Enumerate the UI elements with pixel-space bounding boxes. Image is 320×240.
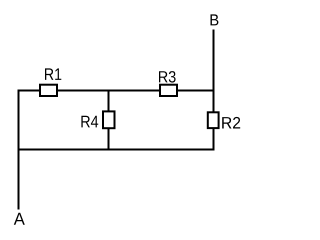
node A label	[14, 213, 25, 225]
label R1	[45, 68, 61, 80]
resistor R3 (box body)	[160, 85, 177, 96]
wire: bottom horizontal bus	[18, 149, 215, 151]
node B label	[211, 14, 219, 25]
wire: left vertical segment from top bus down to terminal A	[18, 90, 20, 210]
label R3	[159, 71, 176, 83]
wire: top horizontal bus from left branch through R1 and R3 to node B branch	[18, 90, 215, 92]
label R4	[81, 116, 98, 128]
wire: R4 vertical branch from top bus to bottom bus	[108, 91, 110, 151]
resistor R2 (box body)	[208, 112, 219, 128]
resistor R4 (box body)	[103, 111, 115, 128]
wire: vertical segment from node B through R2 position down to bottom bus corner	[213, 30, 215, 151]
resistor R1 (box body)	[40, 85, 57, 96]
label R2	[222, 117, 240, 129]
